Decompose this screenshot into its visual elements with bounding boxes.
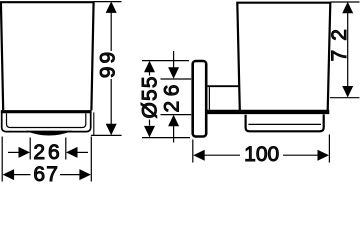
holder bottom bulge (front) <box>26 131 73 136</box>
dimension 99 line <box>110 11 112 125</box>
plate/arm collar line <box>208 87 210 110</box>
svg-text:26: 26 <box>161 80 184 112</box>
holder ring inner lip (front) <box>7 113 86 127</box>
holder/glass bottom band (side) <box>206 110 330 114</box>
dimension 72 arrow down <box>342 86 353 98</box>
svg-text:26: 26 <box>33 141 62 164</box>
dimension 26 front extension right <box>65 138 67 160</box>
dimension 26 side extension bottom <box>161 114 192 116</box>
dimension D55 line <box>149 72 151 126</box>
glass bottom / holder top joint (front) <box>1 110 92 113</box>
dimension 26 front arrow right <box>66 147 78 158</box>
svg-text:67: 67 <box>33 163 59 186</box>
holder cup outer (side) <box>246 114 324 131</box>
dimension 100 line <box>204 154 318 156</box>
dimension 26 side arrow up <box>168 115 179 127</box>
holder arm top edge (side) <box>208 85 240 87</box>
dimension 72 arrow up <box>342 2 353 14</box>
glass side view <box>237 3 330 111</box>
dimension D55 extension bottom <box>142 137 190 139</box>
dimension 99 arrow down <box>106 124 117 136</box>
dimension 99 arrow up <box>106 1 117 13</box>
svg-text:99: 99 <box>97 49 120 78</box>
dimension 26 side extension top <box>161 78 192 80</box>
dimension 99 extension bottom <box>91 134 122 136</box>
dimension 67 extension left <box>1 137 3 182</box>
dimension 72 line <box>347 12 349 87</box>
glass front view <box>1 2 94 110</box>
dimension 26 side tails <box>173 51 175 143</box>
dimension 72 extension bottom <box>330 97 360 99</box>
dimension 26 side arrow down <box>168 67 179 79</box>
dimension 67 extension right <box>90 137 92 182</box>
dimension D55 arrow down <box>144 126 155 137</box>
dimension 26 front arrow left <box>19 147 31 158</box>
dimension 67 arrow right <box>79 169 91 180</box>
dimension 67 arrow left <box>3 169 15 180</box>
dimension 26 front extension left <box>29 138 31 160</box>
svg-text:Ø55: Ø55 <box>139 75 162 118</box>
dimension D55 extension top <box>142 60 189 62</box>
dimension 100 extension left <box>192 140 194 163</box>
dimension 100 extension right <box>328 135 330 163</box>
dimension 99 extension top <box>94 1 122 3</box>
dimension 99 extension jog from glass bottom right <box>93 112 95 135</box>
dimension 67 line <box>14 174 81 176</box>
holder ring outer (front) <box>2 113 91 132</box>
svg-text:100: 100 <box>244 143 279 166</box>
wall plate (side view) <box>193 61 207 137</box>
svg-text:72: 72 <box>328 20 351 61</box>
dimension 72 extension top <box>330 1 359 3</box>
dimension 100 arrow right <box>318 150 330 161</box>
holder cup inner lip (side) <box>248 123 321 125</box>
dimension 26 front tails <box>8 151 88 153</box>
dimension 100 arrow left <box>193 150 205 161</box>
dimension D55 arrow up <box>144 61 155 73</box>
